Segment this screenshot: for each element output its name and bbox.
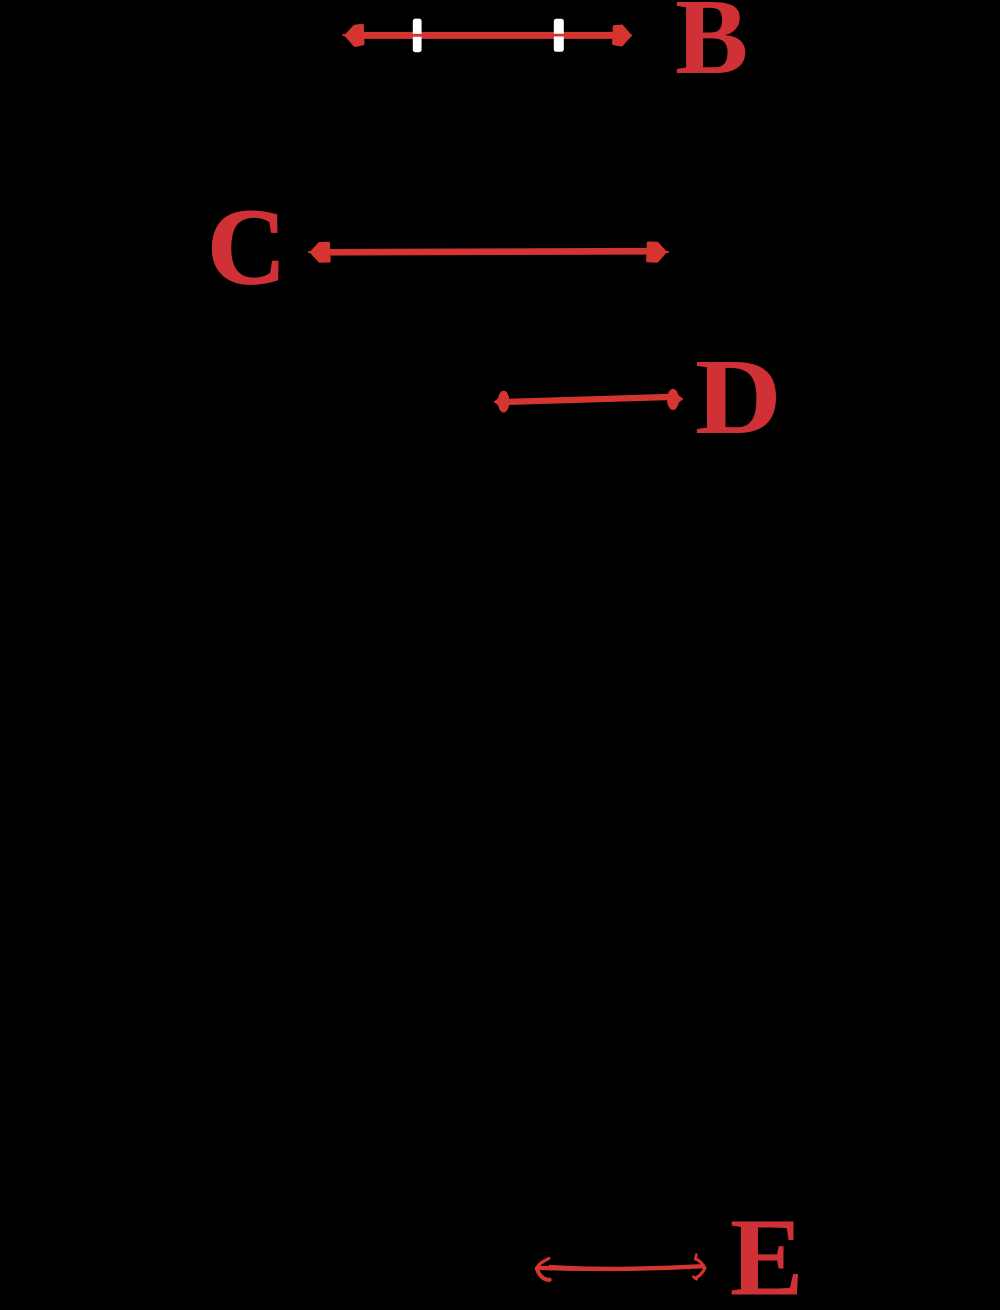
segment B left arrowhead xyxy=(346,25,363,45)
label D xyxy=(695,337,782,457)
segment E left arrowhead xyxy=(537,1258,549,1268)
segment D right arrowhead xyxy=(667,389,679,410)
svg-text:C: C xyxy=(208,188,286,307)
segment B thin red line through ticks xyxy=(408,34,572,37)
segment E right arrowhead xyxy=(696,1259,705,1269)
label C xyxy=(208,188,286,307)
segment C left arrowhead xyxy=(312,243,330,261)
label E xyxy=(730,1196,804,1310)
label B xyxy=(675,0,748,97)
segment B shaft xyxy=(348,32,629,39)
svg-text:B: B xyxy=(675,0,748,97)
segment B tick mark 1 (white) xyxy=(413,19,422,53)
segment C shaft xyxy=(314,251,656,252)
segment B right arrowhead xyxy=(614,26,630,45)
segment D left arrowhead xyxy=(498,391,510,413)
svg-text:D: D xyxy=(695,337,782,457)
segment E shaft xyxy=(538,1266,704,1269)
segment C right arrowhead xyxy=(648,243,666,261)
segment B tick mark 2 (white) xyxy=(554,19,564,52)
svg-text:E: E xyxy=(730,1196,804,1310)
segment D shaft xyxy=(505,397,674,402)
